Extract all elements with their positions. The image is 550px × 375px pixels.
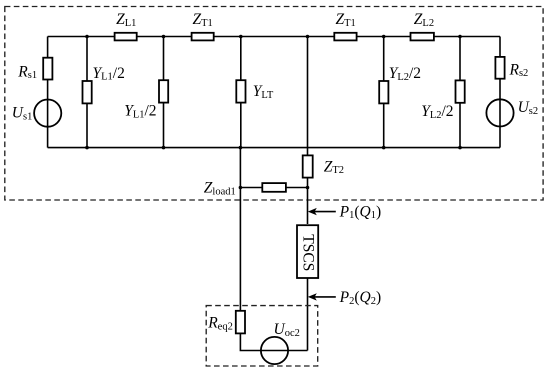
wire: shunt branch 2 — [163, 37, 165, 148]
junction: bottom bus node 5 — [382, 146, 386, 150]
boundary: external network dashed box — [5, 7, 543, 201]
source U_s1 — [34, 100, 61, 127]
wire: shunt branch 3 — [240, 37, 242, 148]
svg-text:TSCS: TSCS — [300, 234, 317, 271]
junction: top bus node 5 — [382, 35, 386, 39]
arrowhead P2 — [308, 293, 317, 300]
arrow: P1 measurement — [314, 211, 336, 213]
resistor Z_L2 — [411, 33, 434, 41]
admittance Y_LT — [236, 80, 245, 102]
resistor Z_L1 — [115, 33, 137, 41]
wire: shunt branch 1 — [86, 37, 88, 148]
wire: shunt branch 4 (node to Z_T2) — [307, 37, 309, 156]
wire: bottom loop — [240, 333, 307, 350]
resistor R_s2 — [495, 57, 504, 79]
junction: top bus node 1 — [85, 35, 89, 39]
wire: Z_load1 connection — [240, 187, 308, 189]
wire: TSCS to bottom box — [307, 278, 309, 351]
junction: top bus node 3 — [239, 35, 243, 39]
arrowhead P1 — [308, 208, 317, 215]
junction: top bus node 2 — [162, 35, 166, 39]
admittance Y_L1/2 (second) — [159, 80, 168, 102]
wire: load branch vertical (x=240.4) — [239, 148, 241, 311]
admittance Y_L1/2 (first) — [83, 81, 92, 103]
junction: Z_load1 right node — [306, 186, 310, 190]
resistor R_eq2 — [236, 311, 245, 334]
junction: top bus node 6 — [458, 35, 462, 39]
device TSCS (thyristor controlled series compensator) — [297, 225, 318, 278]
source U_s2 — [486, 99, 513, 126]
resistor Z_T2 — [303, 155, 313, 177]
wire: bottom bus — [48, 147, 500, 149]
junction: bottom bus node 6 — [458, 146, 462, 150]
admittance Y_L2/2 (first) — [379, 81, 388, 103]
wire: Z_T2 to TSCS vertical — [307, 178, 309, 224]
junction: bottom bus node 3 — [239, 146, 243, 150]
admittance Y_L2/2 (second) — [456, 80, 465, 102]
wire: right branch (U_s2/R_s2 leg) — [499, 37, 501, 148]
resistor R_s1 — [43, 58, 52, 80]
resistor Z_T1 (left) — [192, 33, 214, 41]
junction: Z_load1 left node — [239, 186, 243, 190]
resistor Z_load1 — [262, 183, 286, 192]
boundary: receiving system dashed box — [206, 306, 318, 366]
junction: top bus node 4 — [306, 35, 310, 39]
junction: bottom bus node 2 — [162, 146, 166, 150]
wire: shunt branch 6 — [459, 37, 461, 148]
junction: bottom bus node 1 — [85, 146, 89, 150]
wire: left branch (U_s1/R_s1 leg) — [47, 37, 49, 148]
wire: top bus — [48, 36, 500, 38]
arrow: P2 measurement — [314, 296, 336, 298]
resistor Z_T1 (right) — [334, 33, 356, 41]
source U_oc2 — [261, 337, 288, 364]
wire: shunt branch 5 — [383, 37, 385, 148]
